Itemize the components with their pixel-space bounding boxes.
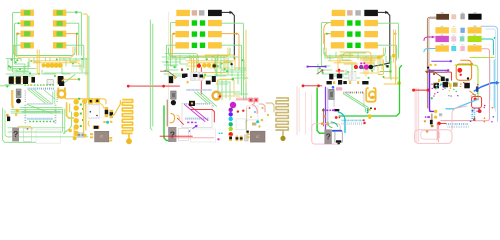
- wire pink from row4 board4: [475, 49, 489, 121]
- component row4 part4 board4: [468, 45, 482, 51]
- component row4 part4 board2: [208, 42, 222, 48]
- wire mesh1 seg25: [16, 70, 28, 72]
- capacitor subboard2 small: [252, 123, 256, 126]
- node mesh1 via3: [47, 64, 49, 66]
- red rounded outline board4 lower: [472, 96, 482, 108]
- wire green across IC 1: [20, 107, 62, 109]
- wire mesh1 seg10: [63, 58, 65, 61]
- unknown part board3 gray: [324, 129, 331, 144]
- red via big board4: [457, 68, 462, 73]
- wire mesh1 seg27: [27, 62, 29, 70]
- pink horizontal board4: [441, 120, 475, 122]
- red jumper board4: [414, 89, 429, 91]
- capacitor C5 small: [31, 77, 35, 83]
- wire mesh2 seg9: [211, 56, 213, 61]
- wire green elbow gap: [380, 60, 391, 72]
- IC U4 big board2: [182, 104, 212, 128]
- wire green diagonal across IC: [27, 105, 52, 114]
- red via right board2 2: [242, 110, 244, 112]
- component row2 part4 board3: [364, 20, 378, 26]
- node mesh1 via2: [56, 58, 58, 60]
- wire mesh3 seg7: [357, 54, 359, 59]
- gray bars board3: [349, 72, 352, 81]
- wire left bus from resistors: [13, 12, 21, 60]
- wire mesh2 seg30: [167, 62, 169, 72]
- black label board3: [335, 109, 339, 111]
- yellow via subboard2: [261, 119, 264, 122]
- wire yellow horiz board2 low: [196, 72, 226, 74]
- wire green diagonal lower: [64, 112, 72, 133]
- wire yellow bus mid2: [33, 63, 80, 70]
- node on yellow run: [78, 98, 80, 100]
- colored via column board2: [229, 108, 233, 112]
- node mesh3 via4: [383, 76, 385, 78]
- pads left of U3: [90, 133, 93, 135]
- component row3 part3 board3: [355, 31, 360, 36]
- red wire links subboard2: [259, 104, 265, 112]
- red jumper wire left board2: [128, 85, 179, 87]
- black rect board4 left bottom: [430, 120, 433, 125]
- wire green horiz y84: [5, 83, 23, 85]
- wire mesh1 seg20: [44, 72, 88, 74]
- wire mesh2 seg27: [231, 64, 233, 76]
- node mesh2 via10: [241, 59, 243, 61]
- resistor R6: [53, 31, 66, 37]
- tick small board4 rows: [441, 26, 444, 27]
- colored specks subboard2: [249, 107, 251, 109]
- bus loop yellow board2: [171, 48, 228, 58]
- wire mesh3 seg19: [373, 60, 375, 70]
- node right of pad 5: [80, 125, 82, 127]
- chartreuse path board4 b: [470, 57, 494, 59]
- khaki rect board4: [453, 83, 458, 87]
- component row3 part3 board2: [200, 31, 205, 36]
- component row2 part3 board3: [355, 20, 360, 25]
- IC U1 top pins: [27, 103, 30, 105]
- wire mesh2 seg31: [175, 60, 177, 68]
- via yellow pad row a: [30, 84, 32, 86]
- component row1 part1 board3: [332, 10, 346, 16]
- crystal Y3 board3: [329, 89, 334, 99]
- board 3 pale pink verticals: [296, 87, 298, 136]
- component row3 part4 board2: [208, 31, 222, 37]
- cyan trace board3: [338, 112, 345, 133]
- wire yellow vert pair board2: [193, 55, 195, 72]
- wire outer right green: [88, 16, 90, 104]
- wire pink pair to subboard: [236, 97, 258, 99]
- node mesh2 via3: [217, 65, 219, 67]
- via magenta board3: [364, 64, 369, 69]
- svg-text:?: ?: [13, 129, 18, 139]
- wire yellow loop board2 2: [205, 55, 235, 69]
- component row4 part3 board2: [200, 43, 205, 48]
- node right row1: [75, 11, 77, 13]
- black cluster board4 bottom mid: [441, 77, 445, 82]
- node mesh1 via8: [15, 61, 17, 63]
- blue dot board4 right: [472, 110, 474, 112]
- component row4 part1 board2: [175, 42, 189, 48]
- component U brown board4: [436, 14, 449, 20]
- gray tick above brown board4: [441, 12, 444, 13]
- wire mesh1 seg16: [62, 68, 70, 74]
- wire mesh2 seg3: [162, 57, 176, 61]
- component row2 part2 board4: [451, 28, 456, 33]
- teal vertical board4: [489, 60, 491, 100]
- wire mesh3 seg11: [379, 58, 381, 64]
- pin column mid: [56, 90, 58, 93]
- green dots row lower: [29, 121, 31, 123]
- wire bottom yellow: [18, 126, 32, 130]
- wire green diagonals to IC: [28, 90, 48, 106]
- wire green row4 right board2: [222, 45, 242, 95]
- node mesh3 via6: [322, 72, 324, 74]
- wire mesh2 seg17: [219, 62, 221, 68]
- pad near teal 2: [110, 121, 112, 123]
- bus loop green board3: [324, 48, 386, 56]
- cyan dash row board3: [342, 120, 343, 122]
- wire mesh1 seg12: [75, 58, 77, 61]
- node corner dots U2: [90, 111, 92, 113]
- wire bottom green over outlines: [8, 131, 63, 133]
- orange curl board2: [170, 113, 175, 122]
- mounting pad P2: [94, 98, 100, 103]
- wire mesh2 seg5: [184, 57, 196, 59]
- IC U1 right pins: [55, 105, 57, 106]
- component row4 part2 board2: [192, 43, 197, 48]
- wire green row4 right board3: [378, 45, 397, 60]
- orange dot in ring board3: [371, 96, 373, 98]
- wire right loop row3 orange: [66, 34, 76, 55]
- wire yellow mesh board2 extra: [186, 65, 206, 67]
- brown dot board4 right: [473, 119, 475, 121]
- wire bottom green 1: [3, 108, 60, 142]
- capacitor C2: [15, 78, 16, 83]
- connector J1 arms: [57, 88, 59, 99]
- maroon line board4: [430, 71, 448, 73]
- via red board3: [354, 65, 358, 69]
- yellow dots cluster board3: [369, 109, 371, 111]
- wire mesh3 seg6: [349, 52, 351, 57]
- crystal Y2 board2: [171, 91, 176, 99]
- resistor R7: [21, 42, 34, 48]
- wire mesh3 seg15: [322, 73, 338, 75]
- capacitor C8 gray: [78, 132, 81, 138]
- node mesh1 via4: [10, 67, 12, 69]
- magenta small dots board3: [360, 62, 362, 64]
- teal curve board3 bottom: [331, 122, 338, 127]
- cyan bits board2: [219, 133, 221, 134]
- purple dot board2: [195, 125, 197, 127]
- red via board4 bottom: [437, 122, 441, 126]
- wire yellow cluster board3 right: [363, 56, 365, 74]
- red bits board3: [338, 69, 340, 71]
- cap yellow-black bottom right board2 3: [240, 136, 243, 141]
- capacitor C7 left edge: [7, 117, 10, 122]
- via top right extra: [82, 99, 87, 104]
- purple thick vertical board3: [325, 87, 327, 133]
- via red small board2: [181, 69, 183, 71]
- connector ring board2: [213, 92, 221, 100]
- component row3 part2 board3: [347, 31, 352, 36]
- node green end elbow board2: [232, 78, 234, 80]
- component row4 part3 board4: [460, 46, 464, 51]
- diode D1 white: [47, 80, 53, 85]
- red jumper board4 dotB: [427, 89, 430, 92]
- magenta diagonal over IC b: [189, 105, 209, 121]
- wire mesh3 seg8: [340, 73, 354, 75]
- component row2 part2 board2: [192, 20, 197, 25]
- wire green row2 right board2: [222, 23, 244, 100]
- wire mesh1 seg4: [8, 60, 18, 71]
- component row1 part4 board2: [208, 10, 222, 16]
- wire green loop board2 2: [165, 54, 198, 65]
- wire bottom green 3: [8, 127, 65, 129]
- wire mesh1 seg1: [13, 60, 30, 72]
- node mesh2 via13: [164, 70, 166, 72]
- node mesh1 via12: [72, 63, 74, 65]
- resistor-network pin row board2: [187, 89, 188, 91]
- capacitor C4: [57, 77, 58, 83]
- bus loop yellow under resistors: [16, 46, 74, 57]
- component row3 part1 board2: [175, 31, 189, 37]
- wire yellow horiz right board3: [384, 83, 399, 85]
- orange rounded rect board4: [456, 64, 471, 80]
- red jumper board4 dotA: [412, 89, 415, 92]
- node mesh2 via6: [226, 70, 228, 72]
- wire brown vertical board2: [166, 100, 168, 126]
- crystal Y1: [16, 89, 21, 98]
- blue component board4: [476, 86, 479, 92]
- lavender vertical board3: [327, 88, 329, 126]
- orange dot board4: [470, 63, 473, 66]
- wire green loop board3 top: [343, 53, 366, 56]
- red jumper dot B: [162, 85, 165, 88]
- via left yellow: [16, 109, 19, 112]
- red horiz board4 bottom: [440, 122, 446, 124]
- wire green row4 left: [166, 45, 175, 60]
- wire mesh2 seg10: [217, 54, 219, 60]
- wire mesh3 seg18: [356, 67, 368, 69]
- wire mesh2 seg2: [170, 60, 176, 66]
- resistor R3: [21, 20, 34, 26]
- capacitor board2 C1: [169, 76, 173, 83]
- component row4 part1 board4: [435, 45, 449, 51]
- capacitor board2 C3: [193, 74, 198, 77]
- yellow bits board4 cluster: [449, 83, 452, 87]
- pink wire up from outline board4: [452, 106, 467, 130]
- red jumper dot A: [127, 85, 130, 88]
- component row3 part2 board2: [192, 31, 197, 36]
- bus loop green under resistors: [13, 46, 75, 56]
- IC U6 subboard2 module: [250, 131, 265, 142]
- wire mesh2 seg23: [226, 71, 244, 73]
- wire mesh1 seg24: [12, 68, 36, 70]
- via bottom: [73, 136, 77, 140]
- wire mesh3 seg13: [320, 69, 332, 71]
- antenna tail khaki: [276, 130, 283, 136]
- purple jumper board4 upper: [432, 60, 451, 62]
- wire mesh1 seg6: [34, 58, 40, 62]
- orange dot outline board3: [321, 122, 324, 125]
- wire mesh2 seg21: [166, 58, 186, 60]
- wire mesh vertical right of IC b: [64, 109, 66, 134]
- wire green verts x55: [54, 90, 56, 104]
- wire yellow small links: [100, 103, 104, 108]
- wire yellow bus mid: [30, 60, 80, 62]
- wire green verts board2 extra: [216, 56, 218, 76]
- outline rect board2 bottom2: [190, 129, 215, 142]
- magenta dot bottom board2: [217, 138, 219, 140]
- orange curve top board3: [324, 23, 331, 44]
- component row3 part4 board3: [364, 31, 378, 37]
- orange diagonal board4: [470, 91, 475, 96]
- via dark board2: [212, 64, 216, 68]
- via black board3: [369, 65, 374, 70]
- black dot board4: [427, 67, 429, 69]
- pink verticals board4: [414, 88, 416, 142]
- wire mesh1 seg21: [85, 58, 87, 75]
- via row of pads (yellow): [42, 63, 46, 67]
- wire brown diagonal board2: [161, 71, 177, 77]
- node mesh2 via7: [181, 68, 183, 70]
- wire mesh1 seg17: [65, 60, 67, 66]
- component tan board4: [451, 14, 456, 19]
- component row1 part3 board2: [199, 10, 205, 15]
- wire pink bottom board2: [174, 137, 214, 139]
- wire green loop board2 1: [187, 56, 215, 71]
- wire yellow loop board3 2: [338, 55, 353, 72]
- resistor R1: [21, 10, 34, 16]
- wire mesh below IC: [11, 109, 63, 111]
- wire green diagonal near caps: [60, 75, 75, 87]
- wire long yellow to subboard: [66, 99, 107, 104]
- green arrow node board3: [326, 33, 329, 35]
- red via right board2 1: [237, 110, 239, 112]
- capacitor C10 vertical: [105, 107, 109, 110]
- capacitor C11 vertical: [110, 110, 114, 113]
- red rounded path board4: [445, 72, 451, 80]
- node mesh2 via11: [195, 71, 197, 73]
- wire mesh3 seg9: [330, 75, 344, 77]
- board 2 pale edge: [168, 12, 170, 132]
- resistor R4: [53, 20, 66, 26]
- red jumper board3 dotB: [317, 84, 320, 87]
- wire right loop row1: [66, 12, 81, 55]
- wire green row2 left down: [170, 23, 175, 60]
- wire mesh3 seg14: [345, 70, 347, 75]
- wire red diagonal board2: [177, 118, 183, 125]
- wire left bus 2: [15, 23, 21, 60]
- green curves top board3 bottom: [328, 122, 332, 128]
- node mesh1 via1: [30, 60, 32, 62]
- yellow dot board4 bottom: [434, 116, 437, 119]
- wire orange left board3: [324, 34, 330, 50]
- via red big board2: [197, 64, 201, 68]
- blue thick wire board4: [474, 83, 497, 91]
- yellow curl board2: [177, 115, 180, 120]
- battery stub board3: [338, 143, 340, 144]
- teal wire right board4: [482, 39, 494, 55]
- capacitor C6 above ring: [59, 81, 64, 86]
- brown path board4: [425, 71, 442, 77]
- svg-text:?: ?: [326, 132, 331, 142]
- pin column left of IC: [25, 90, 27, 93]
- capacitor board2 C6: [200, 75, 204, 78]
- green bright horizontal board3: [339, 66, 401, 117]
- orange path board4: [461, 60, 472, 64]
- red dot in outline board4: [474, 98, 477, 101]
- wire mesh2 seg20: [164, 64, 178, 66]
- component row2 part1 board4: [435, 27, 449, 33]
- IC U4 bottom pins blue: [184, 118, 187, 120]
- wire mesh2 seg24: [232, 77, 248, 79]
- light blue border frame board4: [481, 26, 498, 121]
- capacitor black board2 mid: [182, 74, 185, 78]
- wire red vertical board2: [200, 68, 202, 95]
- blue thick segment board3: [333, 130, 341, 132]
- wire red horiz board2 bottom area: [191, 109, 215, 122]
- green sq board4: [431, 97, 433, 99]
- node mesh3 via8: [381, 64, 383, 66]
- antenna end pad khaki: [280, 136, 285, 141]
- node mesh2 via14: [224, 68, 226, 70]
- wire mesh1 seg15: [42, 70, 56, 74]
- wire green thick left board2: [164, 106, 172, 141]
- capacitor board2 C2: [184, 74, 188, 78]
- colored pin row board3: [343, 92, 344, 94]
- wire yellow L to pads: [67, 103, 74, 118]
- wire yellow lower mesh board2: [233, 80, 235, 95]
- wire mesh1 seg22: [81, 60, 83, 72]
- capacitor board2 C4: [206, 81, 211, 85]
- yellow dots board4 mid: [430, 64, 432, 66]
- battery bar board3: [336, 140, 341, 142]
- capacitor C9 gray: [81, 132, 84, 138]
- brown dots board4: [426, 71, 428, 73]
- component row2 part2 board3: [347, 20, 352, 25]
- pin column left board3: [333, 93, 335, 96]
- yellow via on green board3: [368, 114, 371, 117]
- wire green row2 right board3: [378, 23, 399, 58]
- component row1 part4 board3: [364, 10, 378, 16]
- wire mesh1 seg14: [10, 75, 34, 77]
- brown dot board3 b: [322, 109, 325, 112]
- yellow mesh board3: [328, 60, 352, 62]
- mounting pad board2 P2 pink: [254, 98, 259, 103]
- khaki bits board4 bottom: [431, 125, 434, 127]
- wire mesh3 seg3: [329, 55, 331, 60]
- via far right: [83, 134, 86, 137]
- wire outer right loop: [83, 14, 87, 100]
- wire mesh2 seg12: [228, 56, 238, 58]
- wire green lower mesh board2: [221, 80, 223, 100]
- black IC2 board4: [443, 82, 448, 87]
- wire green across IC 2: [22, 111, 60, 113]
- purple diagonal board2: [189, 125, 197, 131]
- yellow dot purple end board4: [434, 110, 437, 113]
- wire green left verticals board2 b: [152, 24, 154, 126]
- node right of pad 4: [82, 119, 84, 121]
- node right row3: [76, 33, 78, 35]
- wire mesh2 seg16: [216, 70, 226, 76]
- resistor-network pin row (blue): [28, 88, 29, 90]
- wire mesh3 seg20: [344, 77, 360, 79]
- yellow vias board3: [377, 55, 381, 59]
- via yellow board2 1: [202, 63, 207, 68]
- wire green verts x53: [52, 92, 54, 104]
- gray dash comb board4: [447, 126, 450, 128]
- purple dashes board4 bottom: [425, 116, 427, 117]
